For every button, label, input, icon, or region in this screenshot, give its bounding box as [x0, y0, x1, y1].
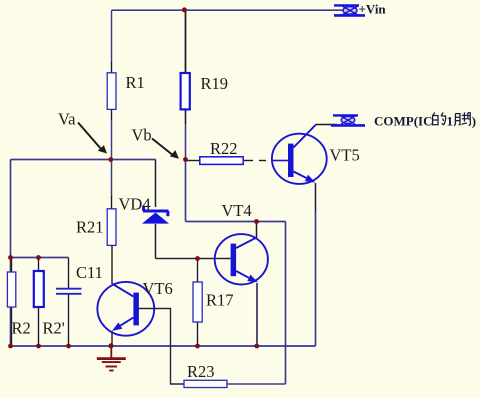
junction R17 bottom — [195, 344, 200, 349]
svg-text:R22: R22 — [210, 139, 238, 158]
resistor R21 — [107, 209, 116, 246]
resistor R23 — [184, 380, 227, 387]
port COMP — [331, 115, 365, 125]
resistor R17 — [193, 282, 202, 322]
junction VT4 emitter bottom — [254, 344, 259, 349]
wire: VT4 collector vertical to y221 — [256, 222, 258, 239]
junction R2' top — [36, 255, 41, 260]
svg-text:Vb: Vb — [132, 126, 152, 145]
zener diode VD4 — [142, 206, 169, 224]
wire: VT6 emitter down to ground rail — [111, 331, 113, 346]
wire: vertical from top rail down to R1 — [111, 10, 113, 63]
resistor R22 — [200, 157, 243, 165]
wire: R19 bottom to node Vb — [185, 124, 187, 160]
svg-text:R17: R17 — [206, 291, 234, 310]
wire: VT5 emitter down (black part) — [315, 183, 317, 212]
svg-text:VT6: VT6 — [143, 279, 173, 298]
transistor VT6 — [97, 282, 154, 336]
node Vb junction — [183, 157, 188, 162]
svg-text:1: 1 — [447, 114, 454, 129]
resistor R19 — [181, 73, 190, 109]
halo strokes under wires — [11, 10, 345, 384]
label COMP chinese glyph DE — [433, 113, 446, 125]
wire: node Vb down to y221 — [185, 160, 187, 222]
wire: R22 right dashed segment 1 — [244, 160, 253, 162]
svg-text:COMP(IC: COMP(IC — [374, 114, 433, 129]
junction left rail / branch — [8, 255, 13, 260]
wire: horizontal branch to R2' and C11 — [11, 257, 69, 259]
resistor R2' — [34, 271, 44, 307]
ground — [97, 346, 126, 371]
svg-text:C11: C11 — [76, 263, 103, 282]
transistor VT5 — [272, 125, 327, 184]
node Vb arrow — [152, 139, 179, 159]
wire: R21 top stub — [111, 196, 113, 209]
transistor VT4 — [215, 234, 268, 284]
wire: Va horizontal rail — [11, 159, 156, 161]
wire: VT5 collector to COMP port — [316, 124, 337, 126]
capacitor C11 — [56, 289, 82, 294]
wire: R19 bottom stub — [185, 109, 187, 124]
junction VD4 / R17 / VT4 base — [195, 256, 200, 261]
svg-text:+Vin: +Vin — [359, 2, 387, 17]
junction VT4 collector — [254, 219, 259, 224]
wire: Vb to R22 left stub — [186, 160, 201, 162]
svg-text:R1: R1 — [126, 73, 145, 92]
wire: horizontal from VD4 to VT4 base — [156, 258, 231, 260]
wire: R23 right to vertical riser — [227, 383, 286, 385]
wire: horizontal y221 from Vb vertical to riser — [186, 221, 286, 223]
wire: R17 top lead — [197, 259, 199, 283]
wire: R2' top stub — [38, 258, 40, 272]
node Va junction — [108, 157, 113, 162]
resistor R1 — [107, 73, 116, 110]
wire: VD4 top lead from Va rail — [155, 160, 157, 208]
junction ground / VT6 emitter — [108, 343, 113, 348]
wire: R2 top stub — [11, 258, 13, 273]
wire: left vertical rail — [10, 160, 12, 347]
wire: right vertical riser to y221 wire — [285, 222, 287, 385]
wire: top rail down to R19 (black thick) — [185, 10, 187, 73]
wire: VD4 bottom lead down — [155, 224, 157, 259]
svg-text:): ) — [472, 114, 476, 129]
port +Vin — [334, 5, 365, 15]
label COMP chinese glyph JIAO — [454, 112, 470, 125]
junction bottom rail left corner — [8, 344, 13, 349]
wire: R2 bottom stub — [11, 307, 13, 346]
wire: R1 bottom to node Va — [111, 120, 113, 160]
wire: R22 right dashed segment 2 — [259, 160, 266, 162]
wire: R17 bottom lead — [197, 322, 199, 346]
wire: VT5 emitter down to ground rail — [315, 211, 317, 346]
svg-text:R21: R21 — [76, 218, 104, 237]
wire: node Va down to R21 — [111, 160, 113, 198]
svg-text:VT4: VT4 — [222, 201, 252, 220]
wire: bottom ground rail — [11, 345, 316, 347]
svg-text:VT5: VT5 — [330, 146, 360, 165]
junction C11 bottom — [66, 344, 71, 349]
svg-text:R2: R2 — [12, 319, 31, 338]
wire: VT5 base lead into circle — [273, 160, 288, 162]
svg-text:R19: R19 — [201, 74, 229, 93]
svg-text:VD4: VD4 — [119, 195, 151, 214]
wire: R21 bottom to VT6 collector — [111, 246, 113, 285]
junction R2 bottom — [36, 344, 41, 349]
svg-text:R2': R2' — [43, 319, 65, 338]
wire: C11 bottom lead — [68, 294, 70, 346]
wire: VT6 base right, down, to R23 left — [139, 309, 185, 385]
svg-text:R23: R23 — [187, 362, 215, 381]
wire: top +Vin rail from R1 corner to Vin port — [112, 9, 345, 11]
wire: R1 bottom pin stub (black) — [111, 109, 113, 121]
wire: R2' bottom stub — [38, 307, 40, 346]
resistor R2 — [7, 272, 15, 307]
wire: R1 top pin stub (black) — [111, 62, 113, 73]
svg-text:Va: Va — [58, 110, 76, 129]
wire: C11 top lead — [68, 258, 70, 289]
junction at top rail / R19 — [182, 7, 187, 12]
wire: VT4 emitter down to ground rail — [256, 283, 258, 346]
node Va arrow — [78, 123, 107, 154]
